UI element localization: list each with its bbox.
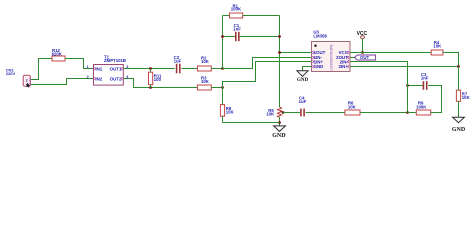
- label CN1 220V: [6, 67, 16, 76]
- wire: [31, 79, 93, 85]
- capacitor C1: [223, 23, 280, 41]
- net flag OUT: [350, 55, 376, 60]
- junction: [282, 111, 285, 114]
- junction: [457, 65, 460, 68]
- svg-text:220V: 220V: [6, 71, 16, 76]
- svg-text:10K: 10K: [348, 104, 357, 109]
- wire: [408, 112, 417, 114]
- wire: [458, 101, 460, 117]
- svg-text:OUT: OUT: [360, 55, 369, 60]
- wire: [123, 79, 197, 88]
- svg-text:1: 1: [87, 65, 89, 69]
- power VCC: [357, 31, 368, 53]
- wire: [443, 53, 459, 67]
- wire: [31, 59, 52, 80]
- resistor R6: [345, 101, 360, 115]
- svg-text:10K: 10K: [462, 95, 471, 100]
- resistor R7: [456, 90, 470, 101]
- resistor R9: [416, 101, 431, 115]
- svg-text:1nF: 1nF: [233, 27, 241, 32]
- junction: [278, 35, 281, 38]
- svg-text:LM358MX/NOPB: LM358MX/NOPB: [330, 44, 334, 71]
- svg-text:10K: 10K: [226, 110, 235, 115]
- wire 1OUT: [280, 52, 312, 54]
- wire: [458, 67, 460, 91]
- svg-text:GND: GND: [272, 133, 286, 139]
- capacitor C3: [421, 72, 429, 90]
- capacitor C4: [299, 95, 307, 116]
- resistor R1: [223, 3, 280, 18]
- svg-text:10K: 10K: [201, 79, 210, 84]
- wire 2IN+: [350, 66, 459, 68]
- resistor R12: [52, 48, 65, 61]
- wire: [283, 112, 300, 114]
- wire staircase to 1IN-: [223, 58, 312, 69]
- junction: [406, 84, 409, 87]
- wire 2IN-: [350, 62, 408, 113]
- svg-text:OUT1: OUT1: [110, 66, 122, 71]
- ground (bottom): [272, 126, 286, 139]
- svg-text:1nF: 1nF: [421, 76, 429, 81]
- svg-text:10K: 10K: [433, 43, 442, 48]
- wire: [181, 68, 197, 70]
- wire GND stub of U3: [303, 67, 312, 71]
- wire: [123, 68, 175, 70]
- mouse cursor: [27, 83, 30, 88]
- potentiometer R5: [266, 107, 283, 117]
- svg-text:10K: 10K: [201, 59, 210, 64]
- svg-text:2: 2: [87, 75, 89, 79]
- op-amp U3 LM358: [312, 30, 351, 72]
- junction: [221, 86, 224, 89]
- wire: [408, 85, 423, 87]
- svg-text:100K: 100K: [416, 104, 427, 109]
- junction: [406, 111, 409, 114]
- svg-text:100: 100: [154, 77, 162, 82]
- svg-text:GND: GND: [314, 64, 324, 69]
- svg-text:GND: GND: [297, 78, 309, 83]
- wire staircase to 1IN+: [223, 62, 312, 88]
- resistor R3: [197, 75, 211, 90]
- wire: [306, 112, 345, 114]
- junction: [361, 51, 364, 54]
- junction: [221, 67, 224, 70]
- transformer T1: [94, 54, 126, 85]
- svg-text:1uF: 1uF: [174, 58, 182, 63]
- svg-text:GND: GND: [452, 127, 466, 133]
- ground (right): [452, 117, 466, 133]
- svg-text:LM358: LM358: [313, 33, 327, 38]
- wire: [211, 87, 222, 89]
- svg-text:ZMPT101B: ZMPT101B: [104, 58, 126, 63]
- capacitor C2: [174, 55, 182, 73]
- resistor R4: [431, 40, 443, 55]
- svg-text:2: 2: [26, 78, 28, 82]
- svg-text:OUT2: OUT2: [110, 76, 122, 81]
- wire: [211, 68, 222, 70]
- connector CN1: [23, 75, 31, 87]
- wire: [223, 122, 280, 124]
- resistor R2: [197, 55, 211, 71]
- junction: [221, 35, 224, 38]
- ground (U3): [297, 71, 309, 83]
- junction: [149, 67, 152, 70]
- wire: [65, 59, 93, 69]
- resistor R11: [149, 69, 163, 88]
- junction: [278, 121, 281, 124]
- junction: [149, 86, 152, 89]
- svg-text:100K: 100K: [231, 7, 242, 12]
- wire VCC row: [350, 52, 431, 54]
- junction: [278, 51, 281, 54]
- svg-text:10K: 10K: [266, 112, 275, 117]
- resistor R8: [220, 88, 234, 123]
- svg-text:1uF: 1uF: [299, 99, 307, 104]
- wire loop left vertical: [222, 16, 224, 69]
- wire loop right vertical: [279, 16, 281, 108]
- wire: [428, 86, 441, 113]
- wire: [279, 117, 281, 126]
- wire: [360, 112, 408, 114]
